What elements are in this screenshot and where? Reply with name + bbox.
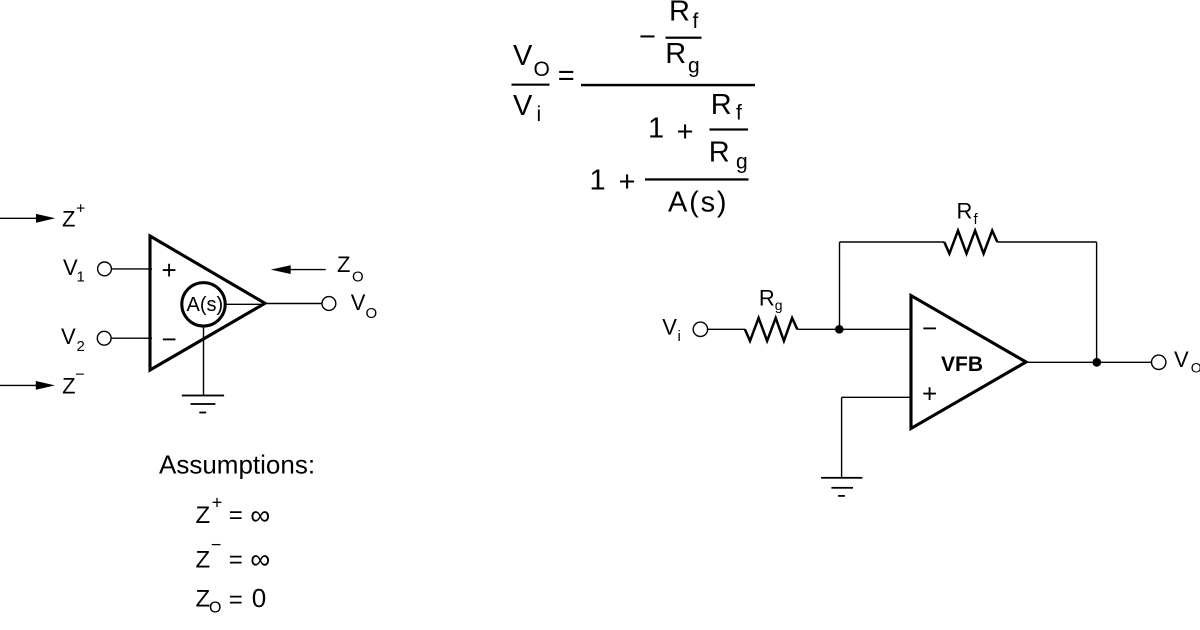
svg-text:1: 1	[648, 113, 664, 145]
svg-text:+: +	[619, 166, 636, 198]
svg-text:O: O	[209, 600, 221, 617]
svg-text:VFB: VFB	[941, 353, 983, 376]
svg-text:f: f	[693, 10, 699, 33]
svg-text:R: R	[957, 198, 973, 223]
svg-text:V: V	[662, 314, 677, 339]
svg-text:V: V	[61, 324, 76, 349]
svg-text:V: V	[1174, 347, 1189, 372]
svg-text:O: O	[366, 305, 378, 322]
svg-text:−: −	[162, 324, 177, 354]
svg-text:A(s): A(s)	[187, 294, 224, 316]
svg-text:0: 0	[252, 583, 266, 613]
svg-text:O: O	[534, 58, 550, 81]
svg-text:∞: ∞	[250, 500, 270, 531]
svg-text:−: −	[639, 21, 656, 53]
svg-text:V: V	[351, 290, 366, 315]
svg-text:1: 1	[77, 269, 85, 286]
svg-text:=: =	[558, 60, 575, 92]
svg-text:+: +	[212, 492, 223, 512]
svg-text:g: g	[736, 151, 748, 174]
svg-text:Z: Z	[196, 586, 211, 613]
svg-text:1: 1	[590, 165, 606, 197]
svg-text:V: V	[513, 40, 533, 72]
svg-text:A(s): A(s)	[668, 187, 728, 219]
svg-text:R: R	[759, 286, 775, 311]
svg-text:Z: Z	[62, 373, 75, 398]
svg-text:f: f	[736, 102, 742, 125]
svg-text:=: =	[229, 502, 243, 529]
svg-text:+: +	[922, 378, 937, 408]
svg-text:R: R	[665, 38, 686, 70]
svg-text:R: R	[711, 89, 732, 121]
svg-text:∞: ∞	[250, 544, 270, 575]
svg-text:Z: Z	[196, 502, 211, 529]
svg-text:i: i	[678, 328, 681, 345]
svg-text:−: −	[922, 313, 937, 343]
svg-text:−: −	[75, 367, 84, 384]
svg-text:2: 2	[77, 338, 85, 355]
svg-text:Assumptions:: Assumptions:	[159, 449, 315, 479]
svg-text:=: =	[229, 546, 243, 573]
svg-text:V: V	[513, 90, 533, 122]
svg-text:Z: Z	[337, 252, 350, 277]
svg-text:+: +	[76, 200, 85, 217]
svg-text:=: =	[229, 586, 243, 613]
svg-text:O: O	[352, 268, 364, 285]
svg-text:i: i	[537, 103, 542, 126]
svg-text:R: R	[669, 0, 690, 28]
svg-text:Z: Z	[62, 207, 75, 232]
svg-text:g: g	[775, 297, 783, 313]
svg-text:+: +	[162, 255, 177, 285]
svg-text:+: +	[677, 116, 694, 148]
svg-text:g: g	[688, 55, 700, 78]
svg-text:R: R	[709, 136, 730, 168]
svg-text:Z: Z	[196, 546, 211, 573]
svg-text:O: O	[1191, 360, 1200, 376]
svg-text:−: −	[211, 534, 222, 554]
